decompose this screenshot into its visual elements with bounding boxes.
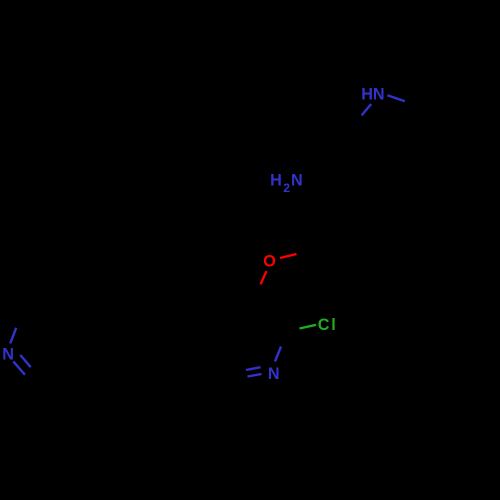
bond O1-C (half, lower-left) bbox=[261, 271, 267, 284]
bond N3-C (half, upper-right) bbox=[275, 347, 281, 362]
bond O1-C (half, upper-right) bbox=[280, 254, 297, 258]
bond Cl1-C (half, left) bbox=[300, 325, 317, 329]
bond N1-C (half, right) bbox=[387, 95, 404, 101]
svg-text:N: N bbox=[268, 365, 280, 383]
svg-text:N: N bbox=[291, 172, 303, 190]
bond N1-C (half, lower-left) bbox=[362, 104, 372, 115]
svg-text:l: l bbox=[331, 316, 336, 334]
svg-text:H: H bbox=[270, 172, 282, 190]
svg-text:N: N bbox=[2, 346, 14, 364]
double bond N3=C (half, left, outer line) bbox=[246, 367, 261, 370]
svg-text:O: O bbox=[263, 253, 276, 271]
bond N4-C (half, upper-right) bbox=[10, 328, 16, 344]
double bond N4=C (half, lower-right, outer line) bbox=[13, 361, 25, 374]
svg-text:2: 2 bbox=[283, 181, 290, 195]
svg-text:HN: HN bbox=[361, 85, 384, 103]
double bond N3=C (half, left, inner line) bbox=[248, 374, 262, 377]
double bond N4=C (half, lower-right, inner line) bbox=[20, 355, 30, 367]
svg-text:C: C bbox=[318, 316, 330, 334]
